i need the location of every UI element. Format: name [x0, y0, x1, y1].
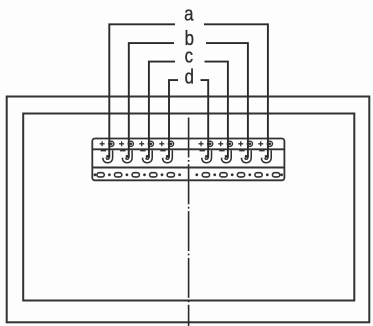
terminal 2 screw cross [119, 141, 124, 146]
terminal 1 clamp hook [101, 149, 111, 161]
svg-text:c: c [185, 44, 193, 67]
rivet dot 7 [195, 173, 198, 176]
rivet dot 1 [94, 173, 97, 176]
terminal 3 screw head [148, 141, 153, 146]
terminal 4 screw head [168, 141, 173, 146]
wire 5 end curl [205, 155, 209, 158]
mounting slot 10 [272, 173, 279, 177]
bracket a right (label line + wire to terminal) [204, 24, 268, 157]
mounting slot 6 [202, 173, 209, 177]
terminal 7 screw cross [238, 141, 243, 146]
rivet dot 6 [178, 173, 181, 176]
bracket b right (label line + wire to terminal) [206, 43, 248, 157]
wire 1 end curl [106, 155, 110, 158]
bracket c left (label line + wire to terminal) [149, 62, 175, 158]
terminal 5 screw head [208, 141, 213, 146]
wire 8 end curl [265, 155, 269, 158]
bracket d left (label line + wire to terminal) [169, 80, 178, 157]
terminal 3 screw cross [139, 141, 144, 146]
rivet dot 5 [161, 173, 164, 176]
terminal strip divider line 2 [92, 167, 284, 169]
terminal 7 clamp hook [239, 149, 249, 161]
rivet dot 4 [143, 173, 146, 176]
terminal 3 clamp hook [140, 149, 150, 161]
rivet dot 9 [231, 173, 234, 176]
mounting slot 4 [150, 173, 157, 177]
mounting slot 7 [220, 173, 227, 177]
svg-text:a: a [184, 2, 194, 25]
bracket d right (label line + wire to terminal) [201, 80, 209, 157]
terminal strip body [92, 139, 284, 181]
terminal 7 screw head [247, 141, 252, 146]
terminal 2 screw head [128, 141, 133, 146]
mounting slot 1 [97, 173, 104, 177]
wire 3 end curl [146, 155, 150, 158]
terminal 4 clamp hook [160, 149, 170, 161]
bracket b left (label line + wire to terminal) [129, 43, 174, 157]
terminal 5 screw cross [199, 141, 204, 146]
terminal 6 screw cross [218, 141, 223, 146]
mounting slot 8 [237, 173, 244, 177]
rivet dot 3 [126, 173, 129, 176]
wire 6 end curl [225, 155, 229, 158]
terminal 6 screw head [227, 141, 232, 146]
mounting slot 3 [132, 173, 139, 177]
outer enclosure rectangle [7, 97, 370, 323]
terminal strip divider line 1 [92, 148, 284, 150]
rivet dot 11 [266, 173, 269, 176]
inner enclosure rectangle [23, 114, 354, 301]
mounting slot 9 [255, 173, 262, 177]
terminal 4 screw cross [159, 141, 164, 146]
terminal 2 clamp hook [120, 149, 130, 161]
terminal 8 screw head [267, 141, 272, 146]
centerline (dash-dot vertical axis) [188, 118, 190, 326]
wire 4 end curl [166, 155, 170, 158]
bracket c right (label line + wire to terminal) [205, 62, 228, 158]
bracket a left (label line + wire to terminal) [109, 24, 175, 157]
rivet dot 2 [108, 173, 111, 176]
rivet dot 10 [248, 173, 251, 176]
terminal 5 clamp hook [200, 149, 210, 161]
mounting slot 5 [167, 173, 174, 177]
terminal 1 screw head [109, 141, 114, 146]
terminal 6 clamp hook [219, 149, 229, 161]
svg-text:d: d [185, 65, 194, 88]
terminal 8 clamp hook [259, 149, 269, 161]
rivet dot 8 [213, 173, 216, 176]
wire 2 end curl [126, 155, 130, 158]
mounting slot 2 [115, 173, 122, 177]
wire 7 end curl [245, 155, 249, 158]
rivet dot 12 [280, 173, 283, 176]
terminal 1 screw cross [100, 141, 105, 146]
terminal 8 screw cross [258, 141, 263, 146]
